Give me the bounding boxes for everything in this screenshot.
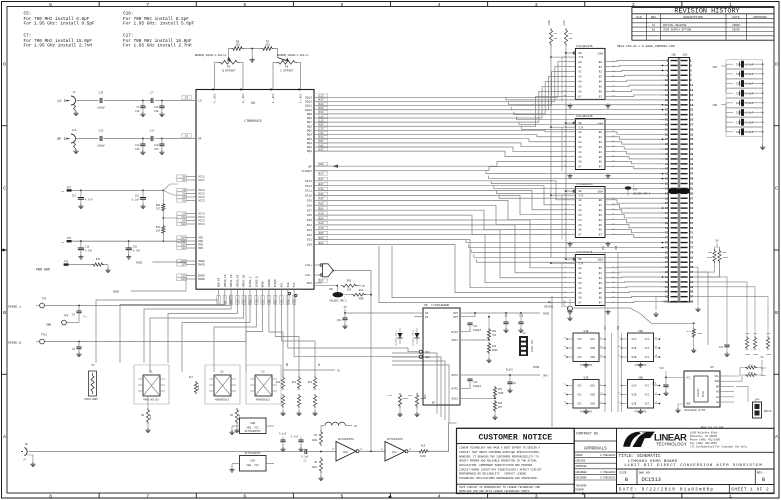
svg-text:DQ13: DQ13	[305, 96, 312, 99]
svg-text:DQ0: DQ0	[307, 150, 312, 153]
svg-text:35: 35	[690, 143, 694, 146]
svg-text:U1: U1	[149, 371, 153, 374]
svg-text:CUSTOMER NOTICE: CUSTOMER NOTICE	[478, 434, 552, 443]
svg-text:73: 73	[690, 237, 694, 240]
svg-text:C3C: C3C	[156, 208, 161, 211]
svg-text:AMP1Q_EN: AMP1Q_EN	[224, 274, 227, 287]
svg-text:C32: C32	[736, 92, 741, 95]
svg-text:SENSE_1: SENSE_1	[8, 305, 21, 309]
svg-text:R15: R15	[421, 445, 426, 448]
svg-text:SOLDER_JMR-2: SOLDER_JMR-2	[633, 193, 651, 196]
svg-text:B: B	[625, 477, 628, 483]
svg-text:3V: 3V	[362, 285, 366, 288]
svg-text:J1D: J1D	[682, 54, 687, 57]
svg-text:RF: RF	[198, 138, 202, 141]
svg-text:93: 93	[690, 286, 694, 289]
svg-text:T/R: T/R	[578, 125, 583, 129]
svg-text:A1: A1	[652, 24, 656, 27]
svg-text:43: 43	[690, 163, 694, 166]
svg-text:SENSE_Q: SENSE_Q	[255, 276, 258, 287]
svg-text:45: 45	[690, 168, 694, 171]
svg-text:C49: C49	[135, 148, 140, 151]
svg-text:NC7SVU04P5X: NC7SVU04P5X	[338, 438, 354, 441]
svg-text:DGND: DGND	[198, 278, 205, 281]
svg-text:A3: A3	[578, 146, 582, 149]
svg-text:99: 99	[690, 301, 694, 304]
svg-text:OCS: OCS	[293, 282, 296, 287]
svg-text:C28: C28	[736, 102, 741, 105]
svg-text:67: 67	[690, 222, 694, 225]
svg-text:A5: A5	[578, 156, 582, 159]
svg-text:UCA: UCA	[590, 385, 595, 388]
svg-text:A2: A2	[578, 141, 582, 144]
svg-text:4.7uF: 4.7uF	[291, 436, 299, 439]
svg-text:VCC: VCC	[645, 403, 650, 406]
svg-text:64: 64	[665, 212, 669, 215]
svg-text:SHDNB: SHDNB	[268, 279, 271, 287]
svg-text:A7: A7	[578, 302, 582, 305]
svg-text:100R: 100R	[420, 397, 426, 400]
svg-text:UCB: UCB	[632, 394, 637, 397]
svg-text:4.7uF: 4.7uF	[85, 250, 93, 253]
svg-text:10K: 10K	[347, 289, 352, 292]
svg-text:84: 84	[665, 261, 669, 264]
svg-text:MASWSS0115: MASWSS0115	[256, 399, 270, 402]
svg-text:81: 81	[690, 256, 694, 259]
svg-text:A2: A2	[578, 71, 582, 74]
svg-text:60: 60	[665, 202, 669, 205]
svg-text:A0: A0	[578, 199, 582, 202]
svg-text:0.5uF: 0.5uF	[745, 63, 753, 66]
svg-text:500K: 500K	[498, 392, 504, 395]
svg-text:C5: C5	[136, 106, 140, 109]
svg-text:55: 55	[690, 192, 694, 195]
svg-text:Fax (408) 434-0507: Fax (408) 434-0507	[690, 442, 718, 445]
svg-text:VDA: VDA	[713, 66, 718, 69]
svg-text:15: 15	[690, 94, 694, 97]
svg-text:B4: B4	[599, 219, 603, 222]
svg-text:66: 66	[665, 217, 669, 220]
svg-text:LINEAR TECHNOLOGY HAS MADE A B: LINEAR TECHNOLOGY HAS MADE A BEST EFFORT…	[459, 447, 540, 450]
svg-text:+VCA: +VCA	[563, 20, 566, 26]
svg-text:6: 6	[243, 2, 246, 8]
svg-text:19: 19	[690, 104, 694, 107]
svg-text:E13: E13	[287, 299, 290, 304]
svg-text:DVGND: DVGND	[274, 279, 277, 287]
svg-text:U6 LT3024EDHD: U6 LT3024EDHD	[424, 304, 449, 307]
svg-text:J11: J11	[72, 129, 77, 132]
svg-text:69: 69	[690, 227, 694, 230]
svg-text:DC1513: DC1513	[642, 477, 661, 483]
svg-text:DI8: DI8	[307, 204, 312, 207]
svg-text:B2: B2	[599, 209, 603, 212]
svg-text:DI9: DI9	[307, 200, 312, 203]
svg-text:B5: B5	[599, 224, 603, 227]
svg-text:85: 85	[690, 266, 694, 269]
svg-text:VCO3 SUPPLY OPTION: VCO3 SUPPLY OPTION	[663, 29, 691, 32]
svg-text:100: 100	[554, 37, 559, 40]
svg-text:OVDD: OVDD	[198, 264, 205, 267]
svg-text:UCA: UCA	[590, 338, 595, 341]
svg-text:52: 52	[665, 183, 669, 186]
svg-text:U9B: U9B	[250, 422, 255, 425]
svg-text:LTC Confidential-For Customer: LTC Confidential-For Customer Use Only	[690, 446, 748, 449]
svg-text:U10: U10	[343, 451, 348, 454]
svg-text:VCC: VCC	[645, 338, 650, 341]
svg-text:For 1.95 GHz: install 9.5pF: For 1.95 GHz: install 9.5pF	[24, 21, 96, 26]
svg-text:R4: R4	[285, 65, 289, 68]
svg-text:88: 88	[665, 271, 669, 274]
svg-text:R3: R3	[227, 65, 231, 68]
svg-text:B: B	[775, 310, 778, 316]
svg-text:4: 4	[438, 2, 441, 8]
svg-text:T13: T13	[255, 299, 258, 304]
svg-text:82: 82	[665, 256, 669, 259]
svg-text:1: 1	[729, 494, 732, 500]
svg-text:40: 40	[665, 153, 669, 156]
svg-text:98: 98	[665, 296, 669, 299]
svg-text:TP6: TP6	[67, 237, 72, 240]
svg-text:24LC024-I/ST: 24LC024-I/ST	[684, 408, 706, 412]
svg-text:0.5uF: 0.5uF	[745, 121, 753, 124]
svg-text:49R9: 49R9	[697, 332, 703, 335]
svg-text:VCB: VCB	[615, 245, 618, 250]
svg-text:VCC: VCC	[645, 385, 650, 388]
svg-text:13: 13	[690, 89, 694, 92]
svg-text:C27: C27	[652, 383, 657, 386]
svg-text:UCB: UCB	[590, 356, 595, 359]
svg-text:DQ4: DQ4	[307, 134, 312, 137]
svg-text:I OFFSET: I OFFSET	[280, 69, 294, 72]
svg-text:J4: J4	[72, 91, 76, 94]
svg-text:C13: C13	[243, 299, 246, 304]
svg-text:R22: R22	[492, 345, 497, 348]
svg-text:C36: C36	[736, 83, 741, 86]
svg-text:VCB: VCB	[617, 325, 620, 330]
svg-text:VCC: VCC	[686, 377, 691, 380]
svg-text:A6: A6	[578, 161, 582, 164]
svg-text:(*): (*)	[83, 316, 87, 319]
svg-text:20: 20	[665, 104, 669, 107]
svg-text:DQ6: DQ6	[307, 125, 312, 128]
svg-text:C35: C35	[99, 92, 104, 95]
svg-text:A0: A0	[716, 391, 720, 394]
svg-text:53: 53	[690, 187, 694, 190]
svg-text:TECHAPRD: TECHAPRD	[576, 485, 588, 488]
svg-text:NC7SVU04P5X: NC7SVU04P5X	[245, 430, 261, 433]
svg-text:RF IN: RF IN	[57, 138, 67, 142]
svg-text:U3A: U3A	[598, 53, 604, 56]
svg-text:44: 44	[665, 163, 669, 166]
svg-text:B0: B0	[599, 61, 603, 64]
svg-text:29: 29	[690, 128, 694, 131]
svg-text:C21: C21	[135, 195, 140, 198]
svg-text:79: 79	[690, 251, 694, 254]
svg-text:I+_ADJ: I+_ADJ	[300, 93, 303, 103]
svg-text:14BIT BIT DIRECT CONVERSION AC: 14BIT BIT DIRECT CONVERSION ACPR SUBSYST…	[624, 464, 763, 468]
svg-text:TP7: TP7	[67, 186, 72, 189]
svg-text:DI12: DI12	[305, 185, 312, 188]
svg-text:91: 91	[690, 281, 694, 284]
svg-text:WRLCK: WRLCK	[764, 410, 772, 413]
svg-text:TP12: TP12	[41, 334, 48, 337]
svg-text:3V: 3V	[354, 425, 358, 428]
svg-text:C: C	[775, 186, 778, 192]
svg-text:7500: 7500	[149, 414, 152, 420]
svg-text:97: 97	[690, 296, 694, 299]
svg-text:102: 102	[156, 230, 161, 233]
svg-text:OVDD: OVDD	[136, 262, 143, 265]
svg-text:DC: DC	[25, 443, 29, 446]
svg-text:OE: OE	[578, 258, 582, 261]
svg-text:VCC1: VCC1	[198, 179, 205, 182]
svg-text:0.5uF: 0.5uF	[745, 92, 753, 95]
svg-text:U2: U2	[220, 371, 224, 374]
svg-text:94: 94	[665, 286, 669, 289]
svg-text:87: 87	[690, 271, 694, 274]
svg-text:FXLH42245: FXLH42245	[576, 45, 592, 48]
svg-text:C38: C38	[154, 110, 159, 113]
svg-text:OUT2: OUT2	[452, 374, 459, 377]
svg-text:TST PNTS: TST PNTS	[530, 340, 533, 353]
svg-text:32: 32	[665, 133, 669, 136]
svg-text:U8: U8	[251, 101, 255, 105]
svg-text:51: 51	[690, 183, 694, 186]
svg-text:UCB: UCB	[632, 403, 637, 406]
svg-text:R70: R70	[633, 189, 638, 192]
svg-text:5V: 5V	[715, 240, 719, 243]
svg-text:5: 5	[340, 494, 343, 500]
svg-text:BOURNS_3362W-1-103-LF: BOURNS_3362W-1-103-LF	[277, 54, 309, 57]
svg-text:B7: B7	[599, 302, 603, 305]
svg-text:TECHNOLOGY: TECHNOLOGY	[656, 442, 687, 447]
svg-text:C4: C4	[72, 314, 76, 317]
svg-text:DI6: DI6	[307, 214, 312, 217]
svg-text:J1E: J1E	[671, 54, 676, 57]
svg-text:3: 3	[535, 2, 538, 8]
svg-text:A5: A5	[578, 292, 582, 295]
svg-text:C29: C29	[736, 112, 741, 115]
svg-text:A3: A3	[578, 76, 582, 79]
svg-text:B4: B4	[599, 151, 603, 154]
svg-text:2: 2	[632, 2, 635, 8]
svg-text:DRAWN: DRAWN	[576, 454, 584, 457]
svg-text:DI5: DI5	[307, 219, 312, 222]
svg-text:PWR GND: PWR GND	[36, 268, 50, 272]
svg-text:A: A	[3, 434, 6, 440]
svg-text:R26: R26	[687, 330, 692, 333]
svg-text:DVDD: DVDD	[543, 313, 550, 316]
svg-text:100: 100	[663, 301, 668, 304]
svg-text:B0: B0	[599, 267, 603, 270]
svg-text:70: 70	[665, 227, 669, 230]
svg-text:C28: C28	[133, 246, 138, 249]
svg-text:C17: C17	[150, 130, 155, 133]
svg-text:A6: A6	[578, 229, 582, 232]
svg-text:61: 61	[690, 207, 694, 210]
svg-text:0.5uF: 0.5uF	[745, 102, 753, 105]
svg-text:E12: E12	[319, 173, 324, 176]
svg-text:CIRCUIT THAT MEETS CUSTOMER-SU: CIRCUIT THAT MEETS CUSTOMER-SUPPLIED SPE…	[459, 451, 540, 454]
svg-text:DQ10: DQ10	[305, 109, 312, 112]
svg-text:LO IN: LO IN	[57, 100, 67, 104]
svg-text:VDA: VDA	[543, 375, 548, 378]
svg-text:C13: C13	[473, 381, 478, 384]
svg-text:For 1.95 GHz install 2.7nH: For 1.95 GHz install 2.7nH	[24, 43, 93, 48]
svg-text:HDK_EN: HDK_EN	[218, 277, 221, 287]
svg-text:F13: F13	[293, 299, 296, 304]
svg-text:DI2: DI2	[307, 234, 312, 237]
svg-text:R28: R28	[492, 330, 497, 333]
svg-text:BOURNS_3362W-1-103-LF: BOURNS_3362W-1-103-LF	[195, 54, 227, 57]
svg-text:DI4: DI4	[307, 224, 312, 227]
svg-text:B6: B6	[599, 297, 603, 300]
svg-text:23: 23	[690, 114, 694, 117]
svg-text:For 1.95 GHz: install 5.6pF: For 1.95 GHz: install 5.6pF	[123, 21, 195, 26]
svg-text:D12: D12	[274, 299, 277, 304]
svg-text:E.TRELEWICZ: E.TRELEWICZ	[600, 476, 616, 479]
svg-text:R19: R19	[408, 394, 413, 397]
svg-text:A7: A7	[578, 96, 582, 99]
svg-text:U9A: U9A	[250, 460, 255, 463]
svg-text:4.7uF: 4.7uF	[133, 250, 141, 253]
svg-text:DQ12: DQ12	[305, 101, 312, 104]
svg-text:UCB: UCB	[590, 403, 595, 406]
svg-text:R10: R10	[388, 394, 393, 397]
svg-text:LO: LO	[198, 100, 202, 103]
svg-text:4990: 4990	[723, 256, 729, 259]
svg-text:A7: A7	[578, 166, 582, 169]
svg-text:U5B: U5B	[584, 376, 589, 379]
svg-text:SCL: SCL	[714, 375, 719, 378]
svg-text:E.TRELEWICZ: E.TRELEWICZ	[600, 454, 616, 457]
svg-text:PCC8: PCC8	[702, 391, 705, 397]
svg-text:R38: R38	[708, 251, 713, 254]
svg-text:2: 2	[632, 494, 635, 500]
svg-text:5: 5	[340, 2, 343, 8]
svg-text:ENGINEER: ENGINEER	[576, 471, 588, 474]
svg-text:B1: B1	[599, 204, 603, 207]
svg-text:U4B: U4B	[584, 330, 589, 333]
svg-text:A0: A0	[578, 267, 582, 270]
svg-text:CIRCUIT BOARD LAYOUT MAY SIGNI: CIRCUIT BOARD LAYOUT MAY SIGNIFICANTLY A…	[459, 468, 542, 471]
svg-text:WP: WP	[716, 385, 720, 388]
svg-text:62: 62	[665, 207, 669, 210]
svg-text:SOLDER_JMR-2: SOLDER_JMR-2	[329, 300, 347, 303]
svg-text:+VDA: +VDA	[548, 20, 551, 26]
svg-text:DQ11: DQ11	[305, 105, 312, 108]
svg-text:8: 8	[49, 494, 52, 500]
svg-text:VCC: VCC	[577, 356, 582, 359]
svg-text:ADJ1: ADJ1	[452, 339, 459, 342]
svg-text:SENSE_Q: SENSE_Q	[8, 341, 21, 345]
svg-text:09CMA: 09CMA	[732, 29, 740, 32]
svg-text:76: 76	[665, 242, 669, 245]
svg-text:500K: 500K	[492, 349, 498, 352]
svg-text:C31: C31	[736, 131, 741, 134]
svg-text:71: 71	[690, 232, 694, 235]
svg-text:33: 33	[690, 138, 694, 141]
svg-text:A: A	[775, 434, 778, 440]
svg-text:FXLH42245: FXLH42245	[576, 115, 592, 118]
svg-text:A2: A2	[578, 209, 582, 212]
svg-text:VCC: VCC	[577, 394, 582, 397]
svg-text:VCC2: VCC2	[198, 200, 205, 203]
svg-text:5V: 5V	[91, 364, 95, 367]
svg-text:7: 7	[146, 494, 149, 500]
svg-text:D13: D13	[319, 280, 324, 283]
svg-text:NC7SVU04P5X: NC7SVU04P5X	[387, 438, 403, 441]
svg-text:A6: A6	[578, 91, 582, 94]
svg-text:DGND: DGND	[113, 291, 120, 294]
svg-text:21: 21	[690, 109, 694, 112]
svg-text:B7: B7	[599, 166, 603, 169]
svg-text:C32: C32	[719, 346, 724, 349]
svg-text:B6: B6	[599, 229, 603, 232]
svg-text:C22: C22	[99, 130, 104, 133]
svg-text:G+_ADJ: G+_ADJ	[242, 93, 245, 103]
svg-text:0.5uF: 0.5uF	[745, 112, 753, 115]
svg-text:IN: IN	[425, 316, 429, 319]
svg-text:49R9: 49R9	[753, 353, 759, 356]
svg-text:B2: B2	[599, 141, 603, 144]
svg-text:VDB: VDB	[713, 104, 718, 107]
svg-text:59: 59	[690, 202, 694, 205]
svg-text:DQ8: DQ8	[307, 117, 312, 120]
svg-text:24: 24	[665, 114, 669, 117]
svg-text:U3: U3	[261, 371, 265, 374]
svg-text:DI10: DI10	[305, 195, 312, 198]
svg-text:58: 58	[665, 197, 669, 200]
svg-text:ECO: ECO	[636, 16, 641, 19]
svg-text:J2: J2	[522, 332, 526, 335]
svg-text:0.5uF: 0.5uF	[745, 83, 753, 86]
svg-text:R40: R40	[96, 258, 101, 261]
svg-text:B2: B2	[599, 277, 603, 280]
svg-text:49R9: 49R9	[358, 298, 364, 301]
svg-text:JP4: JP4	[755, 399, 760, 402]
svg-text:C19: C19	[135, 110, 140, 113]
svg-text:C17:: C17:	[123, 34, 134, 39]
svg-text:A3: A3	[578, 282, 582, 285]
svg-text:C11: C11	[473, 325, 478, 328]
svg-text:R21: R21	[498, 388, 503, 391]
svg-text:B1: B1	[652, 29, 656, 32]
svg-text:I-_ADJ: I-_ADJ	[272, 93, 275, 103]
svg-text:VEE VCC: VEE VCC	[246, 464, 259, 467]
svg-text:GND: GND	[686, 403, 691, 406]
svg-text:A5: A5	[578, 224, 582, 227]
svg-text:A1: A1	[578, 66, 582, 69]
svg-text:B1: B1	[599, 272, 603, 275]
svg-text:OE: OE	[578, 190, 582, 193]
svg-text:AMP2I_EN: AMP2I_EN	[243, 274, 246, 287]
svg-text:IN: IN	[425, 312, 429, 315]
svg-text:56: 56	[665, 192, 669, 195]
svg-text:0.1uF: 0.1uF	[131, 199, 139, 202]
svg-text:B4: B4	[599, 81, 603, 84]
svg-text:B: B	[762, 477, 765, 483]
svg-text:C7: C7	[150, 92, 154, 95]
svg-text:A1: A1	[716, 396, 720, 399]
svg-text:54: 54	[665, 187, 669, 190]
svg-text:DI3: DI3	[307, 229, 312, 232]
svg-text:83: 83	[690, 261, 694, 264]
svg-text:26: 26	[665, 119, 669, 122]
svg-text:68: 68	[665, 222, 669, 225]
svg-text:TP3: TP3	[64, 261, 69, 264]
svg-text:63: 63	[690, 212, 694, 215]
